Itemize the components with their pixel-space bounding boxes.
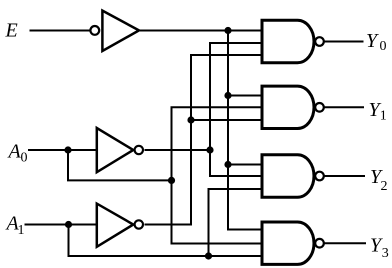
junction E' at Y0 top xyxy=(224,27,231,34)
wire A0' from inverter output to bus xyxy=(145,149,211,151)
junction A0 bypass to bus xyxy=(168,177,175,184)
svg-text:1: 1 xyxy=(380,109,387,124)
label A1 xyxy=(5,213,25,239)
inverter U2 (A0) xyxy=(97,128,143,172)
junction A1 input branch xyxy=(65,221,72,228)
wire A0 bypass below inverter xyxy=(68,150,172,180)
wire output Y3 xyxy=(324,242,366,244)
wire E' vertical bus and Y3 top input xyxy=(228,31,262,230)
junction A1' at Y1 bottom xyxy=(187,116,194,123)
wire A1' bus: Y0 bottom input, vertical, to A1 inverter output xyxy=(145,55,263,225)
svg-text:3: 3 xyxy=(382,246,389,261)
wire output Y2 xyxy=(324,175,365,177)
nand gate U7 (Y3) xyxy=(262,222,324,264)
wire Y1 bottom input xyxy=(191,119,262,121)
wire output Y1 xyxy=(324,106,364,108)
wire Y2 top input xyxy=(228,164,262,166)
svg-text:0: 0 xyxy=(380,39,387,54)
wire A0 bus: Y1 middle input, vertical, Y3 middle input xyxy=(172,107,263,243)
junction A0 input branch xyxy=(64,146,71,153)
nand gate U6 (Y2) xyxy=(262,155,324,197)
wire Y1 top input xyxy=(228,95,262,97)
wire output Y0 xyxy=(324,41,364,43)
inverter U3 (A1) xyxy=(97,204,143,247)
junction A0' bus xyxy=(206,146,213,153)
wire A0' bus: Y0 middle input, vertical, Y2 middle input xyxy=(210,43,262,176)
wire A1 riser to Y2 bottom input xyxy=(209,189,263,256)
label A0 xyxy=(7,141,28,166)
label Y1 xyxy=(369,99,387,124)
wire E' from inverter to NAND Y0 top input xyxy=(140,30,262,32)
label E xyxy=(5,20,18,42)
junction E' at Y2 top xyxy=(224,161,231,168)
wire A1 input xyxy=(25,224,97,226)
svg-text:2: 2 xyxy=(381,179,388,194)
nand gate U4 (Y0) xyxy=(262,20,324,62)
label Y2 xyxy=(370,166,388,194)
svg-text:A: A xyxy=(7,141,22,163)
inverter U1 (E, bubble on input) xyxy=(90,11,139,51)
svg-text:1: 1 xyxy=(18,223,25,238)
nand gate U5 (Y1) xyxy=(262,86,324,128)
label Y0 xyxy=(366,30,387,54)
wire A1 bypass to Y3 bottom input xyxy=(69,225,263,257)
wire A0 input xyxy=(28,149,97,151)
svg-text:0: 0 xyxy=(21,151,28,166)
wire E input xyxy=(30,30,91,32)
label Y3 xyxy=(370,235,389,261)
junction E' at Y1 top xyxy=(224,92,231,99)
junction A1 bypass to riser xyxy=(205,252,212,259)
svg-text:E: E xyxy=(5,20,18,42)
svg-text:Y: Y xyxy=(366,30,379,52)
